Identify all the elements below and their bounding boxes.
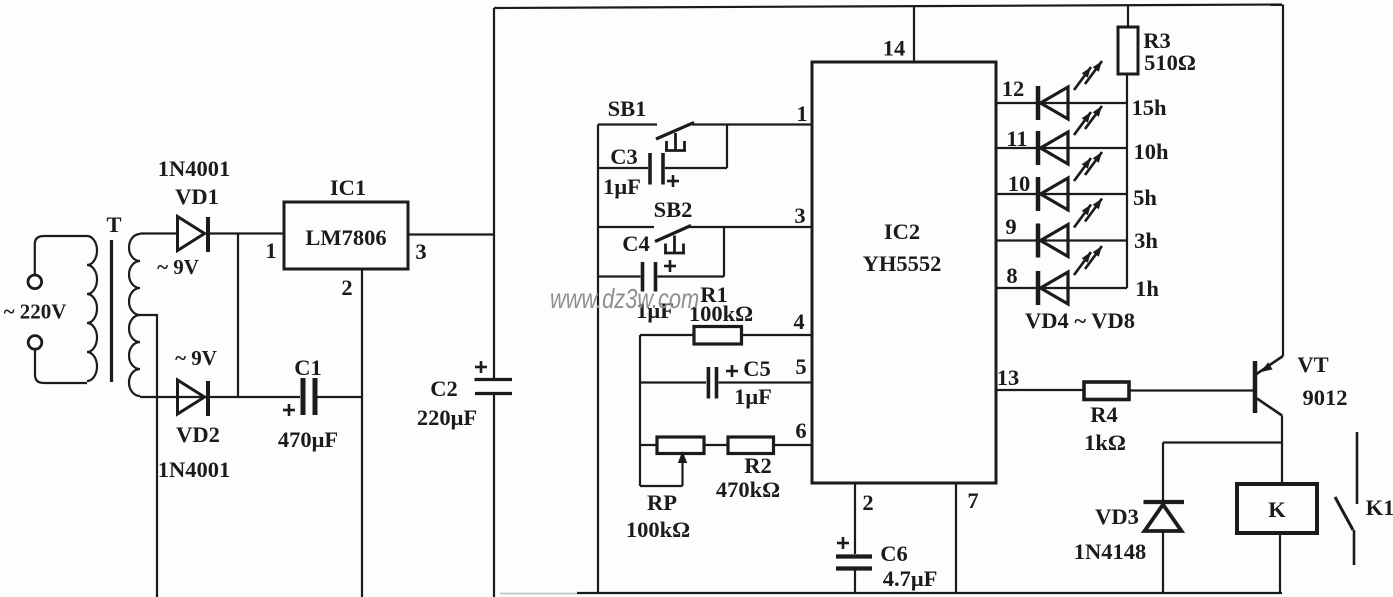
wire R1 right segment to IC2 pin4 (742, 334, 813, 336)
wire IC2 pin7 to ground rail (955, 483, 957, 593)
capacitor C5 (708, 367, 716, 399)
wire SB2 right segment to IC2 pin3 (689, 226, 812, 228)
wire C1 right plate to ground vertical (318, 396, 363, 398)
svg-text:K1: K1 (1366, 495, 1393, 520)
switch K1 (1335, 432, 1357, 565)
svg-text:1N4148: 1N4148 (1074, 539, 1147, 564)
svg-text:1kΩ: 1kΩ (1084, 430, 1126, 455)
svg-text:www.dz3w.com: www.dz3w.com (550, 283, 699, 314)
svg-text:5h: 5h (1133, 185, 1157, 210)
wire C4 right segment (658, 275, 725, 277)
transistor VT 9012 (1255, 356, 1283, 416)
capacitor C6 (836, 557, 872, 569)
svg-text:470μF: 470μF (278, 427, 338, 452)
diode VD2 (178, 380, 209, 416)
LED VD6 (1038, 152, 1102, 211)
LED VD8 wire pin8 (996, 287, 1127, 289)
diode VD1 (178, 217, 209, 253)
wire IC2 pin14 to top rail (913, 6, 915, 62)
wire RP to R2 (704, 444, 728, 446)
C1 plus sign (283, 404, 295, 416)
svg-text:1: 1 (265, 238, 276, 263)
transformer T primary winding (87, 236, 97, 381)
svg-text:100kΩ: 100kΩ (626, 517, 690, 542)
wire VT emitter to top rail (right edge) (1282, 5, 1284, 357)
wire bottom ground rail faint (500, 593, 577, 595)
svg-text:1N4001: 1N4001 (158, 156, 231, 181)
C6 plus sign (837, 537, 849, 549)
wire relay K to ground rail (1279, 533, 1281, 593)
svg-text:10: 10 (1008, 171, 1031, 196)
wire IC1 pin2 ground vertical (361, 269, 363, 597)
svg-text:11: 11 (1006, 126, 1027, 151)
svg-text:3: 3 (794, 203, 805, 228)
wire oscillator left rail (639, 335, 641, 486)
switch SB1 pushbutton actuator (665, 133, 686, 151)
svg-text:R4: R4 (1090, 402, 1118, 427)
wire C4 left segment (598, 275, 641, 277)
svg-text:C1: C1 (294, 355, 322, 380)
transformer T secondary winding lower (129, 315, 140, 396)
switch SB1 blade (656, 123, 694, 140)
wire C3 branch riser (726, 125, 728, 169)
wire RP wiper loop (640, 485, 683, 487)
LED VD7 (1038, 199, 1102, 258)
relay K box (1237, 484, 1317, 533)
wire secondary top lead to VD1 (140, 232, 177, 234)
svg-text:13: 13 (997, 365, 1020, 390)
LED VD8 (1038, 246, 1102, 305)
RP wiper arrow (678, 451, 687, 486)
wire C5 right segment to IC2 pin5 (719, 381, 813, 383)
transformer T core (110, 240, 113, 382)
svg-text:12: 12 (1002, 76, 1025, 101)
LED VD4 wire pin12 (996, 102, 1127, 104)
svg-text:VD1: VD1 (175, 184, 219, 209)
wire VD1 cathode to IC1 pin1 (210, 232, 284, 234)
svg-text:C5: C5 (743, 356, 771, 381)
svg-text:~ 220V: ~ 220V (4, 300, 67, 324)
op-amp IC2 YH5552 box (812, 62, 996, 483)
svg-text:510Ω: 510Ω (1144, 50, 1196, 75)
svg-text:3h: 3h (1134, 228, 1158, 253)
resistor R3 (1118, 5, 1138, 74)
svg-text:VD4 ~ VD8: VD4 ~ VD8 (1025, 308, 1135, 333)
svg-text:YH5552: YH5552 (863, 251, 942, 276)
wire C4 branch riser (723, 227, 725, 277)
svg-text:7: 7 (967, 488, 978, 513)
wire IC2 pin2 down (854, 483, 856, 554)
AC input terminal top (28, 275, 42, 289)
svg-text:1N4001: 1N4001 (158, 457, 231, 482)
wire center tap (140, 315, 157, 597)
watermark www.dz3w.com (550, 283, 699, 314)
svg-text:8: 8 (1006, 263, 1017, 288)
LED VD5 (1038, 106, 1102, 165)
svg-text:C3: C3 (610, 144, 638, 169)
wire IC2 pin13 to R4 (996, 389, 1084, 391)
resistor R2 (728, 437, 774, 454)
svg-text:470kΩ: 470kΩ (716, 477, 780, 502)
switch SB2 pushbutton actuator (664, 236, 685, 254)
svg-text:10h: 10h (1133, 139, 1169, 164)
wire bottom ground rail (577, 592, 1282, 594)
svg-text:1: 1 (796, 101, 807, 126)
svg-text:3: 3 (415, 239, 426, 264)
AC input terminal bottom (28, 336, 42, 350)
wire rectifier junction vertical (237, 234, 239, 398)
svg-text:4: 4 (793, 309, 804, 334)
C2 plus sign (475, 361, 487, 373)
svg-text:T: T (106, 212, 121, 237)
svg-text:~ 9V: ~ 9V (175, 346, 217, 370)
wire R2 right segment to IC2 pin6 (774, 444, 813, 446)
svg-text:6: 6 (795, 418, 806, 443)
resistor R1 (694, 327, 742, 345)
svg-text:LM7806: LM7806 (305, 225, 386, 250)
svg-text:RP: RP (647, 490, 677, 515)
svg-text:IC1: IC1 (330, 175, 366, 200)
switch SB2 blade (655, 226, 691, 242)
wire SB2 left segment (598, 226, 654, 228)
svg-text:C4: C4 (622, 231, 650, 256)
capacitor C1 (303, 378, 315, 415)
svg-text:~ 9V: ~ 9V (157, 255, 199, 279)
svg-text:VD2: VD2 (176, 422, 220, 447)
svg-text:K: K (1268, 497, 1286, 522)
svg-text:2: 2 (862, 490, 873, 515)
svg-text:1h: 1h (1135, 276, 1159, 301)
wire R4 to VT base (1129, 389, 1253, 391)
wire SB1 left segment (598, 123, 657, 125)
wire VD3 top branch (1163, 441, 1282, 443)
wire SB ground rail vertical (597, 125, 599, 594)
capacitor C2 (475, 380, 513, 394)
wire SB1 right segment to IC2 pin1 (692, 123, 812, 125)
potentiometer RP (657, 437, 704, 454)
capacitor C3 (650, 153, 663, 185)
LED VD4 (1038, 61, 1102, 120)
C5 plus sign (726, 365, 738, 377)
svg-text:IC2: IC2 (884, 219, 920, 244)
C3 plus sign (667, 175, 679, 187)
wire AC bottom terminal to transformer primary (35, 349, 87, 383)
wire IC1 pin3 to left rail (408, 233, 494, 235)
svg-text:SB1: SB1 (608, 96, 647, 121)
svg-text:9012: 9012 (1303, 385, 1348, 410)
svg-text:R2: R2 (744, 453, 772, 478)
svg-text:4.7μF: 4.7μF (883, 566, 938, 591)
diode VD3 (1144, 443, 1185, 594)
svg-text:SB2: SB2 (654, 197, 693, 222)
wire C3 right segment (665, 167, 727, 169)
svg-text:14: 14 (883, 36, 906, 61)
transformer T secondary winding upper (129, 234, 140, 315)
svg-text:VT: VT (1297, 352, 1328, 377)
wire AC top terminal to transformer primary (35, 236, 87, 275)
svg-text:VD3: VD3 (1095, 504, 1139, 529)
svg-text:220μF: 220μF (417, 405, 477, 430)
wire RP left segment (640, 444, 657, 446)
wire C3 left segment (598, 167, 648, 169)
svg-text:1μF: 1μF (734, 384, 772, 409)
svg-text:2: 2 (341, 275, 352, 300)
wire outer left rail (493, 8, 495, 378)
C4 plus sign (664, 260, 676, 272)
LED VD5 wire pin11 (996, 147, 1127, 149)
capacitor C4 (643, 262, 656, 292)
wire top supply rail (494, 5, 1282, 9)
resistor R4 (1084, 382, 1129, 400)
wire VT collector down to relay (1281, 416, 1283, 485)
wire secondary bottom lead to VD2 (140, 396, 300, 398)
wire R1 left segment (640, 334, 694, 336)
wire C6 to ground rail (854, 571, 856, 594)
LED VD6 wire pin10 (996, 193, 1127, 195)
svg-text:9: 9 (1005, 214, 1016, 239)
svg-text:C6: C6 (880, 541, 908, 566)
wire LED anode bus (1126, 74, 1128, 288)
svg-text:5: 5 (795, 354, 806, 379)
svg-text:1μF: 1μF (603, 174, 641, 199)
svg-text:C2: C2 (430, 376, 458, 401)
wire C5 left segment (640, 381, 706, 383)
svg-text:15h: 15h (1131, 95, 1167, 120)
LED VD7 wire pin9 (996, 239, 1127, 241)
IC1 LM7806 box (284, 202, 408, 269)
